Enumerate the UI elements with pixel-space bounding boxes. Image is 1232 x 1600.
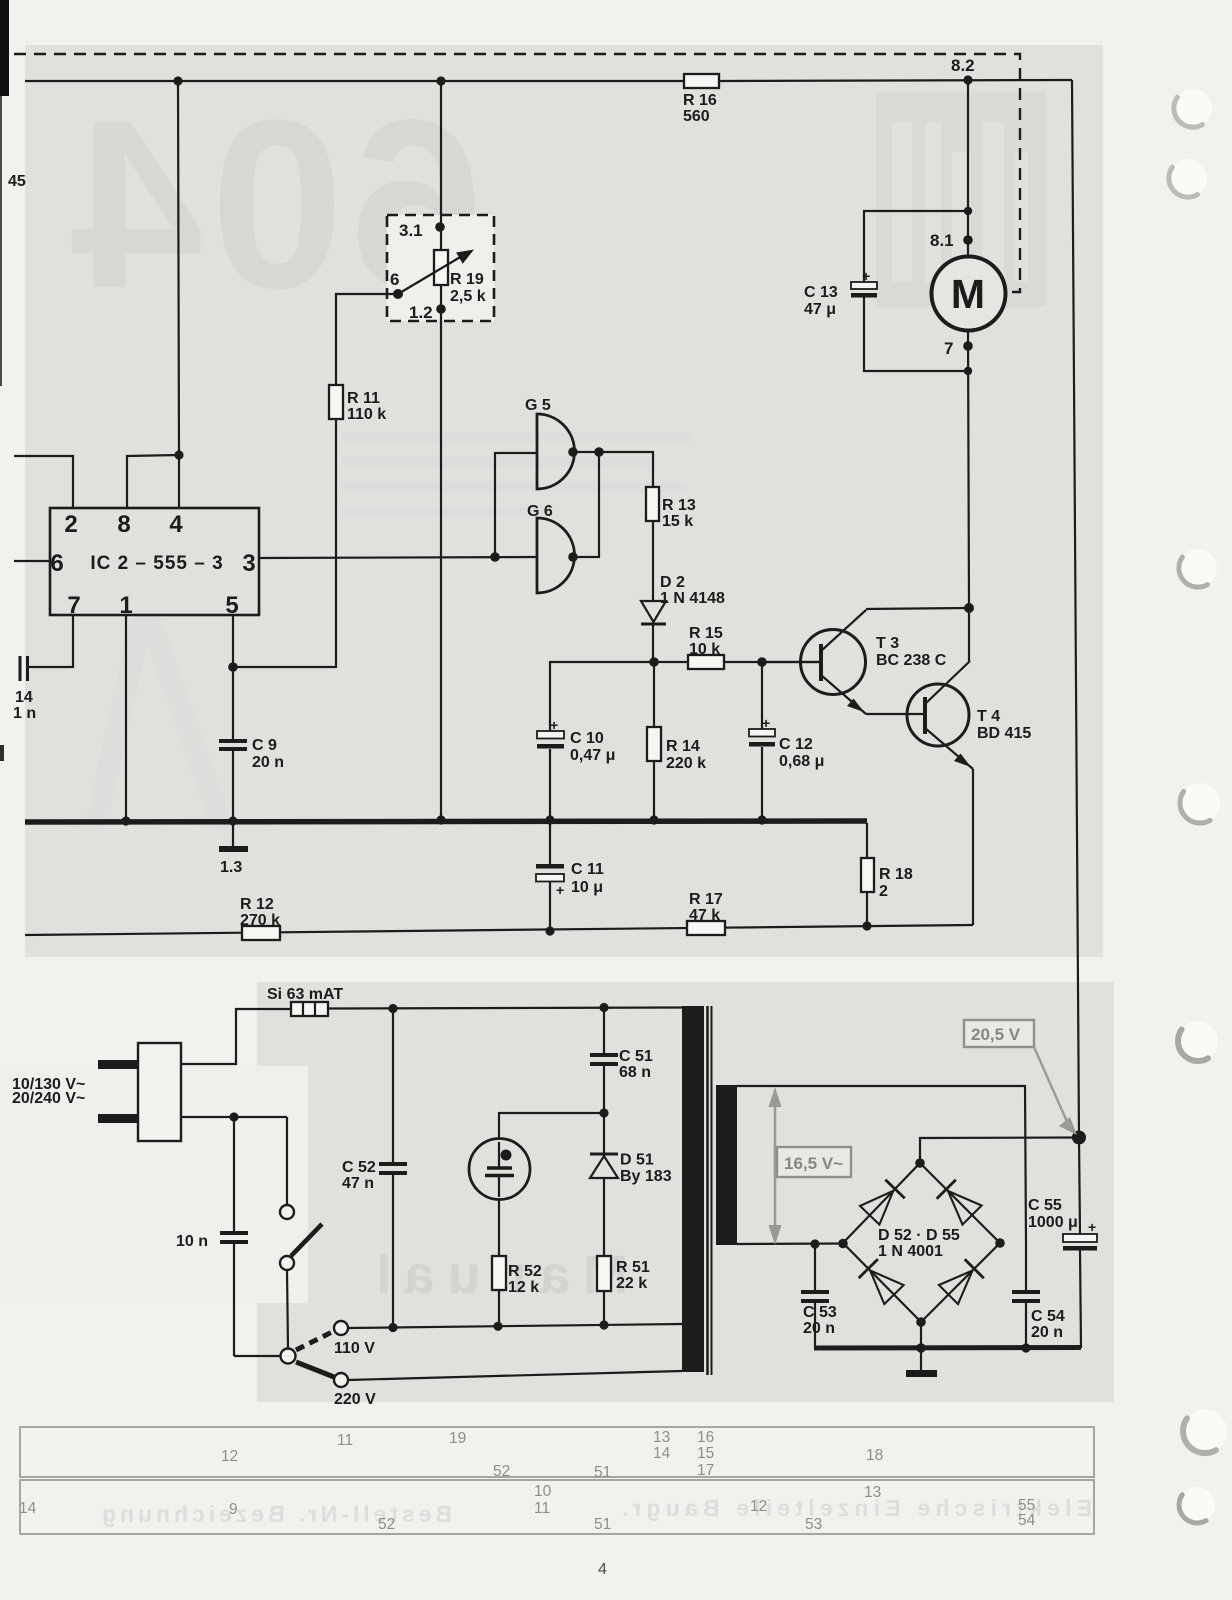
svg-text:8: 8 [117, 511, 130, 538]
svg-text:18: 18 [866, 1447, 883, 1464]
transformer core [708, 1006, 712, 1375]
svg-text:0,68 μ: 0,68 μ [779, 753, 824, 770]
gate G6 [527, 503, 575, 593]
svg-text:6: 6 [50, 550, 63, 577]
svg-text:10 μ: 10 μ [571, 879, 603, 896]
wire: R12/R17 lower line [25, 925, 973, 935]
resistor R15 10k [688, 625, 724, 669]
transistor T4 BD415 [907, 608, 1031, 769]
svg-text:C 51: C 51 [619, 1048, 653, 1065]
svg-text:51: 51 [594, 1516, 611, 1533]
svg-text:By 183: By 183 [620, 1168, 672, 1185]
svg-text:11: 11 [337, 1432, 353, 1449]
svg-text:270 k: 270 k [240, 912, 280, 929]
junction: gate outputs tie [594, 447, 604, 457]
svg-text:D 52 · D 55: D 52 · D 55 [878, 1227, 960, 1244]
junction: bridge AC right [995, 1238, 1005, 1248]
svg-text:M: M [951, 271, 985, 317]
svg-text:R 52: R 52 [508, 1263, 542, 1280]
wire: R19 wiper to R11 [336, 294, 398, 385]
fuse Si 63 mAT [267, 986, 343, 1016]
ground bus 1.3 [25, 821, 867, 822]
junction: bridge minus [916, 1317, 926, 1327]
junction: top rail / IC supply [173, 76, 182, 85]
svg-text:47 n: 47 n [342, 1175, 374, 1192]
junction: gate inputs [490, 552, 500, 562]
transformer primary winding [682, 1006, 704, 1372]
junction: 10n branch [229, 1112, 238, 1121]
label box 20,5 V with pointer [964, 1020, 1077, 1135]
svg-text:12: 12 [221, 1448, 238, 1465]
svg-text:C 9: C 9 [252, 737, 277, 754]
svg-text:1 n: 1 n [13, 705, 36, 722]
svg-text:1.2: 1.2 [409, 303, 433, 322]
terminal 1.3 stub [219, 824, 248, 876]
wire: IC pin 3 output [259, 557, 537, 558]
node 7 [944, 339, 973, 358]
junction: C52 bottom [388, 1323, 397, 1332]
resistor R14 220k [647, 662, 706, 820]
capacitor C10 0,47u [537, 717, 615, 820]
svg-text:R 17: R 17 [689, 891, 723, 908]
svg-text:R 14: R 14 [666, 738, 700, 755]
svg-text:12: 12 [750, 1498, 767, 1515]
junction: pin1/bus [121, 816, 130, 825]
svg-text:3.1: 3.1 [399, 221, 423, 240]
junction: top rail / R19 line [436, 76, 445, 85]
wire: bridge + to 20,5V node [920, 1138, 1079, 1164]
capacitor C53 20n [801, 1244, 837, 1348]
svg-text:G 6: G 6 [527, 503, 553, 520]
svg-text:+: + [762, 715, 770, 731]
svg-text:Si 63 mAT: Si 63 mAT [267, 986, 343, 1003]
junction: bridge + output [915, 1158, 925, 1168]
svg-text:+: + [556, 882, 564, 898]
junction: G6 output [568, 552, 578, 562]
svg-text:R 13: R 13 [662, 497, 696, 514]
svg-text:68 n: 68 n [619, 1064, 651, 1081]
wire: plug to fuse [181, 1009, 291, 1064]
resistor R11 110k [329, 385, 386, 423]
diode D51 By183 [590, 1113, 672, 1256]
svg-text:T 3: T 3 [876, 635, 899, 652]
svg-text:110 k: 110 k [347, 406, 386, 423]
wire: switch to voltage selector [287, 1270, 288, 1349]
svg-text:220 k: 220 k [666, 755, 706, 772]
junction: R52 bottom [493, 1322, 502, 1331]
wire: G6 output tie [573, 452, 599, 557]
svg-text:8.1: 8.1 [930, 231, 954, 250]
junction: C9/bus [228, 816, 237, 825]
contact 220V [334, 1373, 376, 1408]
svg-text:45: 45 [8, 173, 26, 190]
parts table row 2 [19, 1480, 1094, 1534]
junction: C11 / lower line [545, 926, 554, 935]
mains plug [12, 1043, 181, 1141]
junction: pin 5 node [228, 662, 238, 672]
svg-text:0,47 μ: 0,47 μ [570, 747, 615, 764]
junction: C51 top [599, 1003, 608, 1012]
junction: C10/bus [545, 815, 554, 824]
svg-text:5: 5 [225, 592, 238, 619]
svg-text:11: 11 [534, 1500, 550, 1517]
svg-text:20,5 V: 20,5 V [971, 1025, 1021, 1044]
svg-text:R 51: R 51 [616, 1259, 650, 1276]
svg-text:2: 2 [64, 511, 77, 538]
diode D2 1N4148 [641, 574, 725, 624]
svg-text:10: 10 [534, 1483, 552, 1500]
svg-text:7: 7 [944, 339, 953, 358]
svg-text:16: 16 [697, 1429, 714, 1446]
wire: right-hand return line down to 20,5V node [1072, 80, 1079, 1137]
svg-text:110 V: 110 V [334, 1340, 375, 1357]
transformer secondary winding [716, 1085, 737, 1245]
svg-text:C 12: C 12 [779, 736, 813, 753]
wire: secondary bottom to bridge AC left [737, 1242, 843, 1245]
svg-text:14: 14 [19, 1500, 37, 1517]
svg-text:52: 52 [493, 1463, 510, 1480]
junction: C13 top [964, 207, 972, 215]
junction: T3/T4 collectors [964, 603, 974, 613]
svg-text:+: + [550, 717, 558, 733]
svg-text:19: 19 [449, 1430, 466, 1447]
svg-text:54: 54 [1018, 1512, 1036, 1529]
potentiometer R19 2,5k in dashed adjustment box [387, 81, 494, 820]
junction: D2 / R15 / R14 / C10 [649, 657, 659, 667]
voltage selector common contact [281, 1349, 296, 1364]
svg-text:3: 3 [242, 550, 255, 577]
svg-text:14: 14 [653, 1445, 671, 1462]
svg-text:4: 4 [598, 1561, 607, 1578]
ground rail (secondary) [814, 1345, 1081, 1351]
svg-text:6: 6 [390, 270, 399, 289]
junction: R51 bottom [599, 1320, 608, 1329]
capacitor C54 20n [1012, 1243, 1065, 1348]
svg-text:1 N 4148: 1 N 4148 [660, 590, 725, 607]
svg-text:7: 7 [67, 592, 80, 619]
svg-text:C 55: C 55 [1028, 1197, 1062, 1214]
svg-text:C 13: C 13 [804, 284, 838, 301]
svg-text:20 n: 20 n [252, 754, 284, 771]
svg-text:1 N 4001: 1 N 4001 [878, 1243, 943, 1260]
junction: C52 top [388, 1004, 397, 1013]
svg-text:13: 13 [653, 1429, 670, 1446]
wire: plug lower lead [181, 1116, 287, 1118]
capacitor C52 47n [342, 1008, 407, 1327]
capacitor 14 1n [13, 656, 36, 722]
wire: G5 output to R13 [574, 452, 653, 487]
junction: ground rail / C54 [1021, 1343, 1030, 1352]
capacitor C9 20n [219, 615, 284, 820]
svg-text:2: 2 [879, 883, 888, 900]
svg-text:T 4: T 4 [977, 708, 1000, 725]
wire: T3 collector to motor line [866, 608, 969, 609]
wire: IC pin 8 to supply [127, 455, 179, 508]
junction: R18 / lower line [862, 921, 871, 930]
wire: R13 to D2 [652, 521, 654, 601]
svg-text:R 18: R 18 [879, 866, 913, 883]
svg-text:C 10: C 10 [570, 730, 604, 747]
svg-text:1: 1 [119, 592, 132, 619]
transistor T3 BC238C [762, 610, 947, 714]
svg-text:1000 μ: 1000 μ [1028, 1214, 1078, 1231]
wire: T4 emitter down to R17 line [972, 769, 974, 925]
wire: D2 to R15 node [652, 624, 654, 662]
svg-text:C 52: C 52 [342, 1159, 376, 1176]
wire: secondary top to bridge AC right [737, 1086, 1026, 1243]
resistor R52 12k [492, 1199, 542, 1326]
svg-text:C 11: C 11 [571, 861, 604, 878]
wire: motor branch from node 8.2 [968, 80, 969, 608]
junction 8.2 [963, 75, 972, 84]
node 20,5V [1072, 1131, 1086, 1145]
svg-text:22 k: 22 k [616, 1275, 647, 1292]
junction: ground rail / bridge minus [916, 1343, 926, 1353]
junction: bridge AC left [838, 1239, 848, 1249]
svg-text:16,5 V~: 16,5 V~ [784, 1154, 843, 1173]
capacitor C12 0,68u [749, 662, 824, 820]
svg-text:R 16: R 16 [683, 92, 717, 109]
wire: top supply rail [25, 80, 1072, 81]
svg-text:53: 53 [805, 1516, 822, 1533]
svg-text:220 V: 220 V [334, 1391, 376, 1408]
svg-text:13: 13 [864, 1484, 881, 1501]
wire: 220V lead to transformer bottom [348, 1371, 682, 1380]
svg-text:9: 9 [229, 1501, 238, 1518]
svg-text:C 54: C 54 [1031, 1308, 1065, 1325]
svg-text:20 n: 20 n [1031, 1324, 1063, 1341]
svg-text:BC 238 C: BC 238 C [876, 652, 947, 669]
wire: R15 line [654, 661, 821, 663]
capacitor C13 47u [804, 211, 968, 371]
junction: pins 8/4 supply [174, 450, 183, 459]
svg-text:C 53: C 53 [803, 1304, 837, 1321]
svg-text:4: 4 [169, 511, 183, 538]
wire: C10 top link [550, 662, 654, 731]
wire: to mains switch [286, 1117, 288, 1205]
junction: G5 output [568, 447, 578, 457]
wire: R11 to IC pin 5 [233, 419, 336, 667]
svg-text:+: + [1088, 1219, 1096, 1235]
svg-text:R 12: R 12 [240, 896, 274, 913]
wire: T3 emitter to T4 base [866, 713, 925, 715]
junction: R19 line/bus [436, 815, 445, 824]
svg-text:R 11: R 11 [347, 390, 380, 407]
gate G5 [525, 397, 575, 489]
wire: IC pin 7 to capacitor 14 [28, 615, 73, 667]
resistor R13 15k [646, 487, 696, 530]
svg-text:R 15: R 15 [689, 625, 723, 642]
wire: IC pin 6 to left [14, 560, 50, 562]
resistor R12 270k [240, 896, 280, 940]
wire: 110V rail to transformer tap [348, 1324, 682, 1328]
svg-text:560: 560 [683, 108, 710, 125]
svg-text:2,5 k: 2,5 k [450, 288, 486, 305]
bridge rectifier D52-D55 [843, 1163, 1000, 1322]
parts table row 1 [20, 1427, 1094, 1481]
svg-text:8.2: 8.2 [951, 56, 975, 75]
wire: IC pin 2 to left [14, 456, 73, 508]
junction: R15 / C12 / T3 base [757, 657, 767, 667]
svg-text:14: 14 [15, 689, 33, 706]
resistor R51 22k [597, 1256, 650, 1325]
svg-text:51: 51 [594, 1464, 611, 1481]
glow lamp indicator [469, 1113, 604, 1200]
motor M [932, 257, 1006, 331]
svg-text:10 n: 10 n [176, 1233, 208, 1250]
wire: IC pin 4 [178, 455, 180, 508]
resistor R16 [683, 74, 719, 125]
mains switch (open) [280, 1205, 322, 1270]
svg-text:15 k: 15 k [662, 513, 693, 530]
selector lever to 220V (selected) [296, 1362, 334, 1377]
svg-text:R 19: R 19 [450, 271, 484, 288]
wire: supply down to IC pins 8/4 [178, 81, 179, 455]
svg-text:D 51: D 51 [620, 1152, 654, 1169]
junction: C53 top [810, 1239, 819, 1248]
svg-text:47 k: 47 k [689, 907, 720, 924]
capacitor 10n (suppression) [176, 1117, 280, 1356]
capacitor C11 10u [536, 824, 604, 931]
measurement arrow 16,5V [769, 1087, 782, 1245]
svg-text:52: 52 [378, 1516, 395, 1533]
svg-text:IC 2 – 555 – 3: IC 2 – 555 – 3 [90, 553, 223, 574]
resistor R18 2 [861, 823, 913, 927]
svg-text:10 k: 10 k [689, 641, 720, 658]
node 8.1 [930, 231, 973, 250]
svg-text:1.3: 1.3 [220, 859, 242, 876]
svg-text:12 k: 12 k [508, 1279, 539, 1296]
label box 16,5 V [777, 1147, 851, 1177]
resistor R17 47k [687, 891, 725, 935]
ground symbol [906, 1322, 937, 1377]
wire: G5 input branch [495, 453, 537, 557]
svg-text:20/240 V~: 20/240 V~ [12, 1090, 85, 1107]
svg-text:47 μ: 47 μ [804, 301, 836, 318]
wire: IC pin 1 to ground bus [125, 615, 127, 820]
junction: C12/bus [757, 815, 766, 824]
wire: fuse to transformer primary top [328, 1008, 682, 1009]
junction: R14/bus [649, 815, 658, 824]
wire: dashed service loop rail to node 8.2 [14, 54, 1020, 292]
junction: C13 bottom [964, 367, 972, 375]
svg-text:15: 15 [697, 1445, 714, 1462]
selector lever to 110V (dashed, not selected) [296, 1331, 334, 1350]
svg-text:17: 17 [697, 1462, 714, 1479]
junction: glow lamp / D51 [599, 1108, 608, 1117]
svg-text:G 5: G 5 [525, 397, 551, 414]
svg-text:D 2: D 2 [660, 574, 685, 591]
contact 110V [334, 1321, 375, 1357]
svg-text:20 n: 20 n [803, 1320, 835, 1337]
capacitor C51 68n [590, 1007, 653, 1113]
capacitor C55 1000u [1028, 1137, 1097, 1348]
svg-text:BD 415: BD 415 [977, 725, 1031, 742]
IC2 555 timer [50, 508, 259, 619]
svg-text:+: + [862, 268, 870, 284]
